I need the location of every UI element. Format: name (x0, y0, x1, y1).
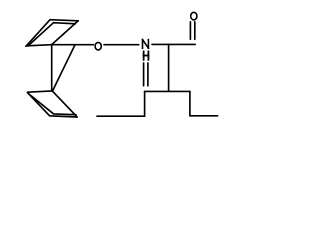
ring ethano bridge slanted bond (53, 45, 76, 91)
ring upper double-bond inner line (28, 23, 75, 46)
atom label O (carbonyl) (191, 12, 197, 20)
atom label N (143, 40, 149, 49)
wire N-to-C bond (main horizontal right) (152, 43, 195, 45)
carbonyl C=O double bond lines (189, 22, 191, 40)
wire chain left vertical (144, 91, 146, 116)
N double bond lines (vertical) (143, 63, 145, 86)
ring lower bridge closing edge (52, 91, 76, 116)
atom label O (ether) (95, 42, 101, 50)
ring upper etheno bridge outer line (C=C) (26, 20, 78, 47)
wire O-to-N bond (104, 44, 139, 46)
ring lower bridge top edge (28, 91, 53, 92)
atom label H (144, 51, 149, 59)
ring lower etheno bridge outer line (C=C) (27, 93, 77, 117)
ring upper bridge closing edge (52, 21, 78, 45)
wire alpha-carbon vertical bond (168, 44, 170, 91)
wire bridgehead-to-O bond (main horizontal left) (27, 45, 93, 46)
wire chain bottom-right horizontal (190, 115, 218, 117)
wire chain right vertical (189, 91, 191, 115)
ring lower double-bond inner line (28, 94, 76, 115)
ring ethano bridge vertical bond (51, 45, 53, 91)
wire chain horizontal middle (145, 90, 190, 92)
wire chain bottom-left horizontal (97, 115, 145, 117)
